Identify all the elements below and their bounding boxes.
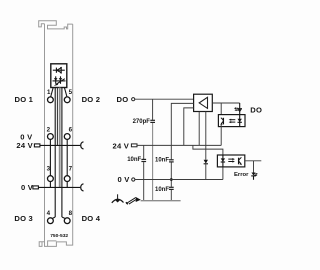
svg-text:0 V: 0 V (118, 175, 131, 184)
svg-text:0 V: 0 V (21, 183, 34, 192)
capacitor C2 10nF (141, 159, 146, 162)
svg-text:1: 1 (47, 89, 51, 96)
svg-text:7: 7 (69, 166, 73, 173)
jog to error opto feed (193, 145, 223, 155)
wire: box to terminal 5 (64, 88, 67, 98)
terminal 5 (64, 97, 70, 103)
terminal 3 (48, 176, 54, 182)
capacitor C4 10nF (mid chain lower) (169, 187, 174, 190)
svg-text:5: 5 (69, 89, 73, 96)
wire 24V rail to capacitor C2 (143, 145, 145, 159)
diode D2 on branch (204, 160, 208, 164)
svg-text:10nF: 10nF (127, 157, 141, 163)
wire 0V through module (38, 186, 80, 188)
wire branch into opto top (220, 103, 222, 118)
functional earth symbol (112, 194, 124, 203)
LED inside (239, 115, 241, 127)
0V rail (135, 179, 223, 181)
phototransistor (238, 158, 240, 165)
terminal 1 (48, 97, 54, 103)
wire pin2 left (171, 103, 193, 159)
LED inside (222, 155, 224, 167)
wire capacitor C3 to capacitor C4 (170, 163, 172, 187)
wire: box to terminal 8 (bundle line) (61, 88, 63, 218)
0V jumper socket (81, 184, 84, 191)
DO input terminal (132, 98, 135, 101)
svg-text:6: 6 (69, 127, 73, 134)
wire: terminal 6 chain to terminal 7 (66, 139, 68, 176)
wire 24V through module (40, 144, 80, 146)
diode D1 (top, in LED box) (53, 67, 65, 73)
svg-text:3: 3 (47, 166, 51, 173)
wire: hook to terminal 8 (62, 217, 66, 219)
wire: terminal 2 chain to terminal 3 (49, 139, 51, 176)
wire: box to 24V rail (bundle line) (56, 88, 58, 146)
wire error LED cathode to 0V rail (222, 167, 224, 180)
svg-text:DO: DO (117, 95, 129, 104)
optocoupler U4 (Error) (217, 155, 244, 167)
svg-text:8: 8 (69, 210, 73, 217)
wire opto bottom to 24V rail (220, 125, 222, 145)
svg-text:DO 4: DO 4 (82, 214, 101, 223)
light arrows (228, 158, 233, 160)
capacitor C3 10nF (mid chain upper) (169, 159, 174, 162)
24V schematic plug (131, 144, 137, 147)
junction node on 0V rail (170, 178, 173, 181)
terminal 6 (64, 134, 70, 140)
svg-text:DO 3: DO 3 (14, 214, 33, 223)
wire error opto output (245, 160, 261, 162)
svg-text:24 V: 24 V (16, 141, 33, 150)
error LED (251, 173, 258, 180)
terminal 2 (48, 134, 54, 140)
wire amp right to optocoupler (212, 102, 239, 104)
svg-text:10nF: 10nF (155, 158, 169, 164)
module outline (gray housing contour) (39, 21, 73, 247)
wire 270pF branch (152, 99, 154, 120)
svg-text:DO 2: DO 2 (82, 95, 101, 104)
op-amp U2 (output driver) (194, 94, 213, 111)
wire: hook to terminal 4 (51, 217, 55, 219)
svg-text:DO 1: DO 1 (15, 95, 34, 104)
wire amp bottom pin to 24V rail (198, 112, 200, 146)
24V jumper socket (81, 142, 84, 149)
0V module plug (33, 186, 39, 189)
24V module plug (34, 144, 40, 147)
terminal 8 (64, 218, 70, 224)
wire amp bottom pin (diode branch) (205, 112, 207, 160)
svg-text:4: 4 (47, 210, 51, 217)
wire capacitor C2 to ground bus (143, 162, 145, 201)
wire: box to 0V rail (gray power bundle line) (59, 88, 61, 188)
0V schematic terminal (132, 178, 135, 181)
light arrows (230, 119, 235, 121)
status LED DO (234, 103, 242, 115)
wire DO to amplifier (135, 98, 194, 100)
capacitor 270pF (150, 120, 155, 123)
ground bus (141, 200, 181, 202)
svg-text:2: 2 (47, 127, 51, 134)
wire capacitor C4 to ground bus (170, 190, 172, 201)
svg-text:DO: DO (250, 106, 262, 115)
svg-text:750-532: 750-532 (50, 233, 68, 239)
wire 270pF to ground bus (152, 123, 154, 201)
shield clamp symbol (126, 197, 141, 204)
svg-text:10nF: 10nF (155, 187, 169, 193)
optocoupler U3 (DO) (218, 115, 245, 127)
terminal 7 (64, 176, 70, 182)
24V rail (137, 144, 221, 146)
svg-text:Error: Error (234, 172, 249, 178)
wire: box to terminal 1 (51, 88, 54, 98)
terminal 4 (48, 218, 54, 224)
wire pin3 left to 24V rail (184, 108, 194, 145)
LED pair (bottom, in LED box) (53, 76, 66, 86)
phototransistor (222, 118, 224, 125)
wire error LED branch (253, 161, 255, 173)
svg-text:270pF: 270pF (133, 119, 151, 125)
svg-text:24 V: 24 V (113, 141, 130, 150)
wire diode to 0V rail (205, 164, 207, 180)
wire: box to terminal 4 (bundle line) (54, 88, 56, 218)
LED box U1 (51, 64, 67, 88)
